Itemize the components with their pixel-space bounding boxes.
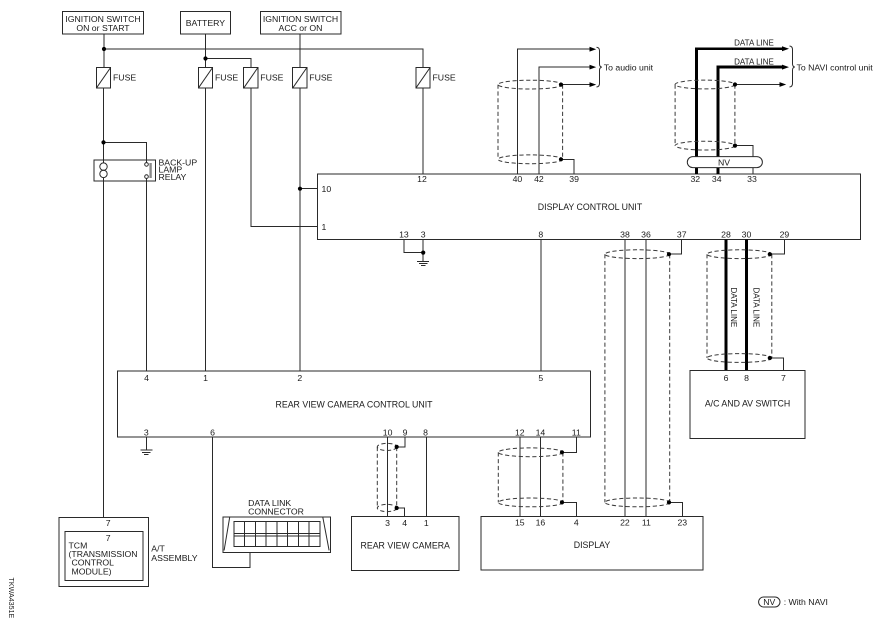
ground symbol: camera control unit bbox=[140, 450, 152, 454]
wire: relay contact to camera control unit pin 4 bbox=[146, 181, 148, 371]
shield cylinder: audio lines bbox=[498, 80, 563, 164]
svg-text:ON or START: ON or START bbox=[76, 23, 130, 33]
svg-text:38: 38 bbox=[620, 229, 630, 239]
power source box: IGNITION SWITCH ON or START bbox=[63, 12, 144, 35]
fuse F1 bbox=[96, 67, 136, 88]
wire: pin 12 to display pin 15 bbox=[519, 437, 521, 517]
svg-text:10: 10 bbox=[383, 427, 393, 437]
brace: to NAVI control unit bbox=[790, 46, 795, 87]
svg-text:REAR VIEW CAMERA CONTROL UNIT: REAR VIEW CAMERA CONTROL UNIT bbox=[275, 400, 433, 410]
wire: pin 10 to camera pin 3 bbox=[387, 437, 389, 517]
svg-text:BATTERY: BATTERY bbox=[186, 18, 225, 28]
svg-text:11: 11 bbox=[642, 518, 651, 528]
svg-text:36: 36 bbox=[641, 229, 651, 239]
svg-text:7: 7 bbox=[106, 533, 111, 543]
wire: fuse F5 to display control unit pin 12 bbox=[422, 88, 424, 174]
svg-text:FUSE: FUSE bbox=[260, 73, 283, 83]
fuse F3 bbox=[244, 67, 284, 88]
wire: battery to fuse F2 bbox=[205, 34, 207, 67]
svg-text:1: 1 bbox=[203, 373, 208, 383]
svg-text:33: 33 bbox=[747, 174, 757, 184]
wire: audio shield drain arrow bbox=[561, 84, 590, 86]
wire: pin 13 to ground node bbox=[404, 240, 423, 253]
wire: battery branch to fuse F3 bbox=[206, 59, 251, 68]
unit box: REAR VIEW CAMERA CONTROL UNIT bbox=[117, 371, 590, 437]
svg-text:NV: NV bbox=[718, 157, 730, 167]
svg-text:8: 8 bbox=[423, 427, 428, 437]
shield cylinder: camera signal bbox=[377, 443, 399, 511]
wire: pin 6 to data link connector bbox=[213, 437, 250, 568]
svg-text:3: 3 bbox=[421, 229, 426, 239]
svg-text:7: 7 bbox=[106, 518, 111, 528]
svg-text:FUSE: FUSE bbox=[215, 73, 238, 83]
wire: shield to A/C switch pin 7 bbox=[770, 358, 784, 371]
svg-text:ASSEMBLY: ASSEMBLY bbox=[151, 553, 197, 563]
svg-text:37: 37 bbox=[677, 229, 687, 239]
svg-text:28: 28 bbox=[721, 229, 731, 239]
svg-text:FUSE: FUSE bbox=[309, 73, 332, 83]
brace: to audio unit bbox=[597, 47, 602, 87]
svg-text:34: 34 bbox=[712, 174, 722, 184]
junction ACC branch bbox=[298, 187, 302, 191]
svg-text:23: 23 bbox=[677, 518, 687, 528]
shield cylinder: A/C data lines bbox=[707, 250, 772, 363]
svg-text:DATA LINE: DATA LINE bbox=[729, 288, 738, 328]
unit box: TCM with A/T assembly bbox=[59, 517, 198, 586]
svg-text:40: 40 bbox=[513, 174, 523, 184]
fuse F4 bbox=[293, 67, 333, 88]
svg-text:4: 4 bbox=[574, 518, 579, 528]
svg-text:REAR VIEW CAMERA: REAR VIEW CAMERA bbox=[360, 540, 450, 550]
svg-text:2: 2 bbox=[297, 373, 302, 383]
svg-text:3: 3 bbox=[144, 427, 149, 437]
svg-text:NV: NV bbox=[763, 597, 775, 607]
wire: branch to display control unit pin 10 bbox=[300, 188, 318, 190]
shield cylinder: display video bbox=[498, 448, 564, 507]
svg-text:12: 12 bbox=[417, 174, 427, 184]
svg-text:42: 42 bbox=[534, 174, 544, 184]
svg-text:1: 1 bbox=[322, 222, 327, 232]
wire: camera control unit pin 3 to ground bbox=[145, 437, 147, 450]
svg-text:CONNECTOR: CONNECTOR bbox=[248, 506, 304, 516]
wire: pin 11 to shield bbox=[562, 437, 576, 452]
svg-text:32: 32 bbox=[690, 174, 700, 184]
svg-text:DISPLAY CONTROL UNIT: DISPLAY CONTROL UNIT bbox=[538, 202, 643, 212]
wire: pin 9 to camera shield bbox=[397, 437, 405, 447]
wire: shield to display pin 23 bbox=[669, 502, 682, 516]
svg-text:10: 10 bbox=[322, 184, 332, 194]
svg-text:7: 7 bbox=[781, 373, 786, 383]
wire: pin 36 to display pin 11 bbox=[645, 240, 647, 517]
svg-text:MODULE): MODULE) bbox=[72, 566, 112, 576]
svg-text:DATA LINE: DATA LINE bbox=[734, 57, 774, 66]
svg-text:To NAVI control unit: To NAVI control unit bbox=[797, 62, 874, 72]
svg-text:15: 15 bbox=[515, 518, 525, 528]
shield cylinder: NAVI data lines bbox=[675, 80, 737, 150]
svg-text:11: 11 bbox=[572, 427, 581, 437]
svg-text:ACC or ON: ACC or ON bbox=[279, 23, 323, 33]
fuse F2 bbox=[198, 67, 238, 88]
wire: fuse F1 to relay coil bbox=[103, 88, 105, 160]
wire: pin 30 data line to A/C switch pin 8 bbox=[745, 240, 748, 371]
wire: pin 39 to audio shield bbox=[561, 159, 574, 174]
svg-text:DATA LINE: DATA LINE bbox=[734, 38, 774, 47]
shield cylinder: display data lines long bbox=[605, 250, 671, 507]
svg-text:8: 8 bbox=[538, 229, 543, 239]
wire: pin 40 to audio unit arrow bbox=[517, 49, 590, 174]
svg-text:A/C AND AV SWITCH: A/C AND AV SWITCH bbox=[705, 398, 790, 408]
wire: NAVI shield to pin 33 bbox=[735, 146, 753, 175]
svg-text:TKWA4351E: TKWA4351E bbox=[7, 578, 15, 619]
wire: relay coil to TCM pin 7 bbox=[103, 181, 105, 531]
wire: pin 14 to display pin 16 bbox=[539, 437, 541, 517]
power source box: IGNITION SWITCH ACC or ON bbox=[260, 12, 341, 35]
svg-text:4: 4 bbox=[402, 518, 407, 528]
wire: pin 8 to camera control unit pin 5 bbox=[540, 240, 542, 372]
wire: ignition switch to fuse F1 bbox=[103, 34, 105, 67]
wire: pin 3 to ground bbox=[422, 240, 424, 262]
wire: camera shield to camera pin 4 bbox=[397, 508, 405, 517]
wire: NAVI shield drain arrow bbox=[735, 84, 780, 86]
connector NV oval bbox=[687, 157, 762, 168]
svg-text:FUSE: FUSE bbox=[113, 73, 136, 83]
relay: BACK-UP LAMP RELAY bbox=[94, 157, 197, 182]
svg-text:To audio unit: To audio unit bbox=[604, 62, 654, 72]
connector: DATA LINK CONNECTOR bbox=[223, 498, 331, 552]
svg-text:8: 8 bbox=[744, 373, 749, 383]
fuse F5 bbox=[416, 67, 456, 88]
svg-text:FUSE: FUSE bbox=[433, 73, 456, 83]
svg-text:16: 16 bbox=[536, 518, 546, 528]
svg-text:29: 29 bbox=[780, 229, 790, 239]
svg-text:4: 4 bbox=[144, 373, 149, 383]
wire: pin 32 data line to NAVI arrow bbox=[696, 49, 783, 174]
svg-text:9: 9 bbox=[403, 427, 408, 437]
unit box: DISPLAY bbox=[481, 517, 703, 571]
svg-text:5: 5 bbox=[538, 373, 543, 383]
wire: pin 42 to audio unit arrow bbox=[539, 67, 590, 174]
wire: branch to relay contact bbox=[104, 142, 147, 160]
wire: top bus from ignition to fuse F5 bbox=[104, 49, 423, 67]
wire: pin 8 to camera pin 1 bbox=[425, 437, 427, 517]
wire: pin 34 data line to NAVI arrow bbox=[718, 67, 783, 174]
svg-text:13: 13 bbox=[399, 229, 409, 239]
wire: fuse F2 to camera control unit pin 1 bbox=[205, 88, 207, 371]
wire: pin 28 data line to A/C switch pin 6 bbox=[725, 240, 728, 371]
unit box: REAR VIEW CAMERA bbox=[352, 517, 460, 571]
svg-text:RELAY: RELAY bbox=[159, 172, 187, 182]
op unit: DISPLAY CONTROL UNIT bbox=[318, 174, 861, 240]
junction at relay feed bbox=[101, 140, 105, 144]
svg-text:12: 12 bbox=[515, 427, 525, 437]
svg-text:6: 6 bbox=[724, 373, 729, 383]
wire: pin 29 to shield bbox=[770, 240, 785, 255]
wire: pin 38 to display pin 22 bbox=[624, 240, 626, 517]
svg-text:1: 1 bbox=[424, 518, 429, 528]
svg-text:6: 6 bbox=[210, 427, 215, 437]
ground symbol: display control unit bbox=[417, 261, 429, 265]
wire: ACC to fuse F4 bbox=[299, 34, 301, 67]
power source box: BATTERY bbox=[180, 12, 230, 35]
svg-text:22: 22 bbox=[620, 518, 630, 528]
svg-text:39: 39 bbox=[569, 174, 579, 184]
svg-text:DISPLAY: DISPLAY bbox=[574, 540, 611, 550]
svg-text:: With NAVI: : With NAVI bbox=[784, 597, 828, 607]
wire: fuse F4 to camera control unit pin 2 bbox=[299, 88, 301, 371]
junction ground node bbox=[421, 251, 425, 255]
svg-text:DATA LINE: DATA LINE bbox=[751, 288, 760, 328]
unit box: A/C AND AV SWITCH bbox=[690, 371, 805, 439]
wire: shield to display pin 4 bbox=[562, 502, 576, 516]
legend: NV oval With NAVI bbox=[759, 597, 828, 607]
svg-text:14: 14 bbox=[536, 427, 546, 437]
junction ignition bus bbox=[102, 47, 106, 51]
wire: pin 37 to shield bbox=[669, 240, 682, 255]
svg-text:30: 30 bbox=[742, 229, 752, 239]
wire: fuse F3 to display control unit pin 1 bbox=[251, 88, 318, 226]
junction battery branch bbox=[203, 56, 207, 60]
svg-text:3: 3 bbox=[385, 518, 390, 528]
